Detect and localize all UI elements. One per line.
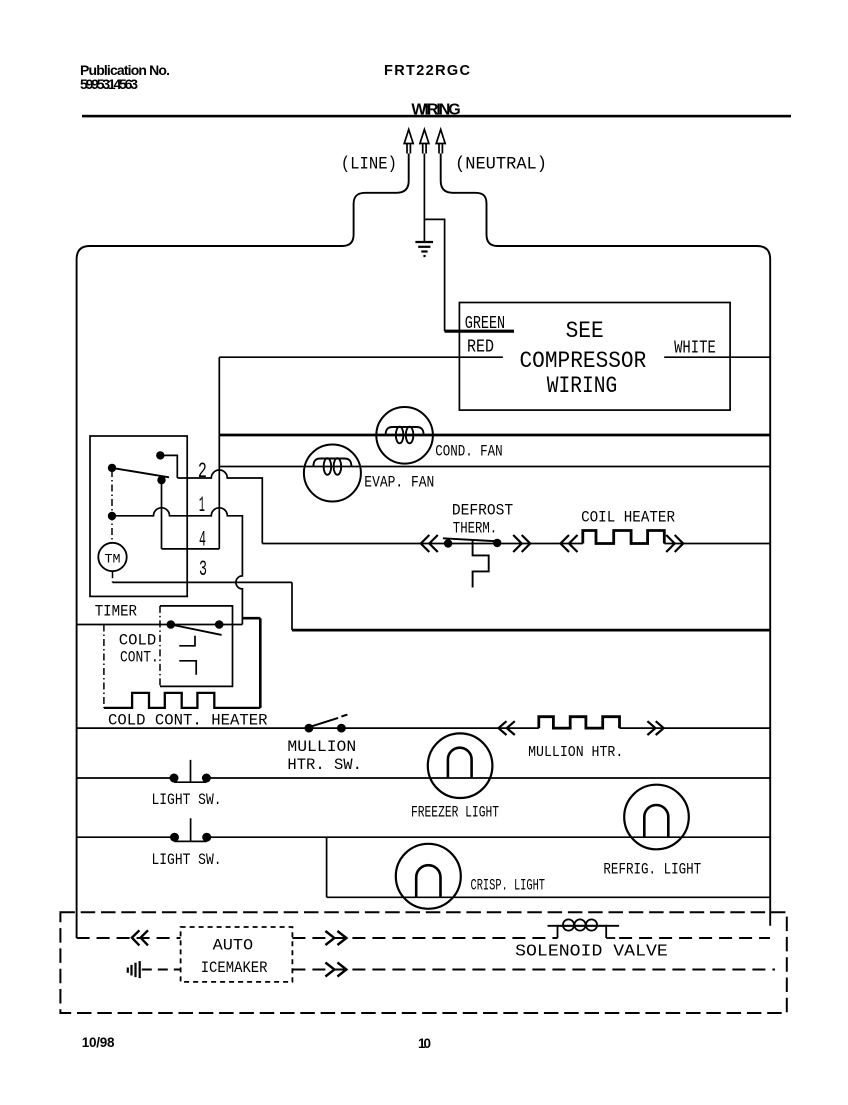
- timer contact node dot 1: [108, 512, 116, 520]
- mullion heater switch blade: [312, 715, 347, 727]
- wire: timer blade drop and line 4: [162, 480, 220, 549]
- svg-text:RED: RED: [467, 338, 494, 358]
- light switch SW1: [170, 774, 179, 783]
- svg-text:TM: TM: [105, 552, 121, 567]
- wire: timer motor dash-dot link: [111, 470, 114, 582]
- icemaker section dashed enclosure: [60, 912, 786, 1013]
- svg-text:TIMER: TIMER: [95, 603, 138, 621]
- svg-text:(LINE): (LINE): [341, 155, 397, 175]
- wire: main vertical bus x219: [218, 357, 220, 549]
- wire: timer line 1 with bumps, down to cold control: [112, 508, 242, 625]
- timer contact node dot top: [156, 451, 164, 459]
- svg-text:ICEMAKER: ICEMAKER: [201, 959, 268, 977]
- svg-text:THERM.: THERM.: [453, 520, 497, 538]
- timer box TM outline: [90, 436, 187, 596]
- cold control inner box: [160, 606, 233, 687]
- coil heater element R1 (square wave): [583, 531, 665, 544]
- connector chevrons left of defrost therm: [421, 535, 438, 552]
- svg-text:COIL HEATER: COIL HEATER: [581, 509, 675, 527]
- svg-text:CONT.: CONT.: [120, 649, 159, 667]
- compressor box U-COMP: [459, 303, 730, 411]
- svg-text:COMPRESSOR: COMPRESSOR: [520, 348, 647, 374]
- mullion heater element R2 (square wave): [539, 717, 620, 728]
- wire: cold control feed from left border: [77, 624, 243, 626]
- svg-text:10: 10: [418, 1036, 431, 1051]
- svg-text:FRT22RGC: FRT22RGC: [384, 63, 471, 79]
- defrost thermostat bimetal hook: [473, 540, 489, 588]
- svg-text:AUTO: AUTO: [213, 937, 254, 955]
- chassis ground symbol: [128, 961, 140, 978]
- svg-text:MULLION: MULLION: [287, 738, 356, 756]
- wire: middle prong to earth ground: [423, 154, 425, 242]
- svg-text:10/98: 10/98: [82, 1035, 115, 1050]
- svg-text:SOLENOID VALVE: SOLENOID VALVE: [515, 943, 668, 962]
- label: SEE COMPRESSOR WIRING: [520, 318, 647, 399]
- wire: timer top contact to line 2: [160, 455, 177, 478]
- lamp L1 freezer light: [428, 733, 493, 798]
- plug prong right (NEUTRAL): [436, 130, 445, 154]
- svg-text:CRISP. LIGHT: CRISP. LIGHT: [471, 877, 546, 895]
- auto icemaker box (dashed): [181, 927, 293, 982]
- wire: cold control heater branch (thick): [242, 618, 260, 708]
- solenoid valve coil K1: [548, 919, 620, 938]
- timer blade contact dot: [157, 476, 165, 484]
- wire: freezer light line: [77, 777, 771, 779]
- svg-text:COLD CONT. HEATER: COLD CONT. HEATER: [108, 711, 268, 729]
- connector chevrons left of coil heater: [561, 535, 578, 552]
- svg-text:(NEUTRAL): (NEUTRAL): [455, 155, 547, 175]
- cold control blade: [171, 625, 222, 635]
- svg-text:MULLION HTR.: MULLION HTR.: [528, 744, 623, 761]
- wire: timer line 2 to defrost line (bump over bus): [177, 470, 262, 544]
- svg-text:5995314563: 5995314563: [80, 76, 138, 92]
- cold control heater element (castellated): [104, 693, 260, 708]
- wire: evaporator fan line: [219, 466, 770, 468]
- svg-text:EVAP. FAN: EVAP. FAN: [364, 474, 434, 492]
- svg-text:1: 1: [199, 493, 205, 518]
- connector chevrons right of mullion heater: [647, 721, 663, 735]
- wire: icemaker out 1 dashed to solenoid: [292, 937, 557, 939]
- svg-text:FREEZER LIGHT: FREEZER LIGHT: [411, 804, 499, 822]
- wire: line 3 feeder to right border (thick): [292, 629, 770, 632]
- wire: refrig light line: [77, 836, 771, 838]
- svg-text:HTR. SW.: HTR. SW.: [287, 756, 362, 774]
- header rule: [82, 115, 791, 118]
- cold control contact dots: [167, 620, 176, 629]
- svg-text:SEE: SEE: [566, 318, 604, 344]
- timer switch blade: [112, 468, 169, 477]
- lamp L2 refrig light: [624, 785, 689, 850]
- connector chevrons icemaker out 1: [325, 931, 346, 945]
- wire: outer border left + top hat left + line prong lead: [77, 154, 409, 939]
- wire: outer border right + top hat right + neutral prong lead: [441, 154, 771, 926]
- wire: defrost/coil heater line: [262, 543, 770, 545]
- wire: white to right border: [664, 356, 770, 358]
- wire: condenser fan line (thick): [219, 434, 770, 437]
- svg-text:REFRIG. LIGHT: REFRIG. LIGHT: [603, 861, 701, 879]
- wire: green (thick): [445, 330, 514, 333]
- plug prong middle (ground): [420, 130, 429, 154]
- connector chevrons icemaker feed (left): [132, 930, 148, 945]
- wire: ground branch to green lead: [424, 219, 444, 331]
- wire: red from node at x219: [219, 356, 503, 358]
- svg-text:COND. FAN: COND. FAN: [435, 443, 503, 461]
- connector chevrons icemaker out 2: [325, 963, 346, 977]
- cold control heater housing dash-dot left edge: [103, 625, 105, 708]
- defrost thermostat blade: [443, 538, 501, 541]
- cold control bellows marks: [179, 636, 196, 675]
- plug prong left (LINE): [404, 130, 413, 154]
- svg-text:4: 4: [199, 528, 206, 553]
- svg-text:LIGHT SW.: LIGHT SW.: [152, 791, 222, 809]
- svg-text:2: 2: [198, 459, 207, 484]
- motor M1 cond fan: [376, 407, 433, 464]
- lamp L3 crisper light: [396, 844, 461, 909]
- wire: timer line 3: [113, 582, 293, 630]
- wire: solenoid out dashed to border: [619, 937, 770, 939]
- timer motor TM circle: [98, 543, 126, 571]
- connector chevrons left of mullion heater: [499, 721, 515, 735]
- connector chevrons right of coil heater: [666, 535, 683, 552]
- svg-text:COLD: COLD: [119, 632, 157, 650]
- mullion heater switch contacts: [305, 724, 314, 733]
- wire: icemaker feed dashed: [77, 937, 181, 939]
- motor M2 evap fan: [304, 445, 361, 502]
- wire: icemaker ground dashed: [142, 969, 181, 971]
- svg-text:WHITE: WHITE: [674, 339, 716, 359]
- svg-text:3: 3: [199, 557, 207, 582]
- defrost thermostat contacts: [444, 539, 452, 547]
- light switch SW2: [170, 833, 179, 842]
- svg-text:WIRING: WIRING: [547, 373, 617, 399]
- wire: icemaker out 2 dashed: [292, 969, 775, 971]
- earth ground symbol: [415, 242, 433, 256]
- wire: mullion heater line: [77, 727, 771, 729]
- svg-text:DEFROST: DEFROST: [452, 502, 513, 520]
- svg-text:LIGHT SW.: LIGHT SW.: [152, 851, 222, 869]
- connector chevrons right of defrost therm: [513, 535, 530, 552]
- wire: crisper light branch: [327, 837, 771, 897]
- timer pivot node dot: [108, 464, 116, 472]
